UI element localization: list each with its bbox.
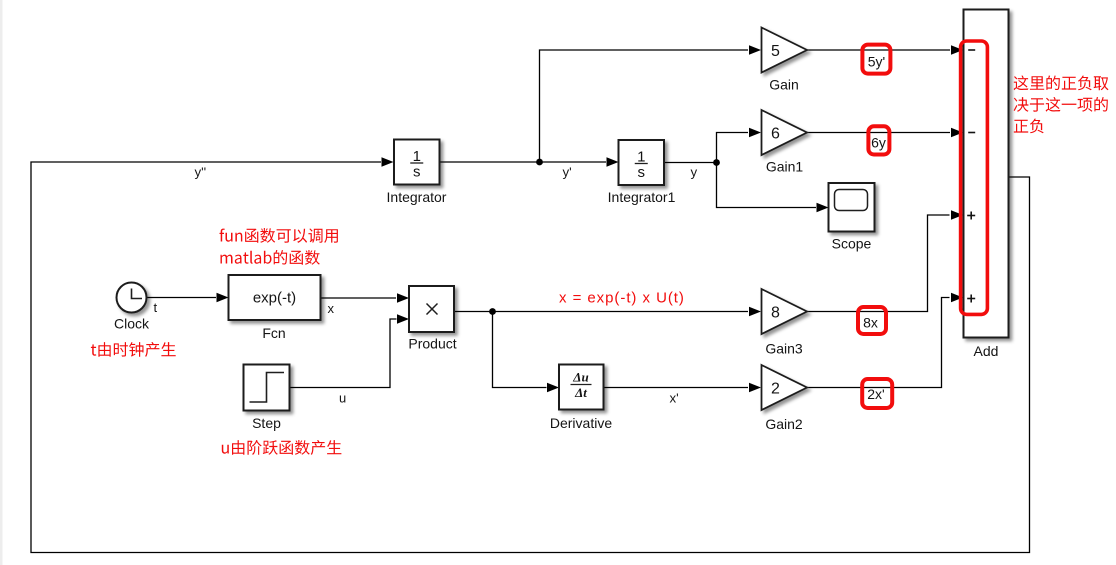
svg-text:6: 6 (771, 126, 780, 143)
label 8x (863, 315, 878, 331)
svg-text:5: 5 (771, 43, 780, 60)
annotation fun函数可以调用 (220, 228, 338, 243)
svg-text:u: u (339, 391, 346, 406)
gain Gain2 (2) (762, 365, 808, 410)
label Clock (114, 316, 150, 332)
svg-text:Step: Step (252, 415, 281, 431)
annotation 这里的正负取 line 1 (1014, 76, 1109, 91)
block Add (sum) (964, 10, 1009, 338)
wire Fcn to Product port 1 (x) (321, 293, 410, 303)
label Add (974, 343, 999, 359)
label Gain1 (766, 159, 804, 175)
wire Integrator to Integrator1 (y') (440, 157, 619, 167)
gain Gain (5) (762, 28, 808, 73)
svg-text:8: 8 (771, 305, 780, 322)
svg-text:y'': y'' (195, 165, 207, 180)
label Step (252, 415, 281, 431)
label x (328, 301, 335, 316)
pin sign minus (port 1) (968, 49, 975, 51)
wire Integrator1 to junction y (664, 162, 717, 164)
label 6y (871, 135, 886, 151)
gain Gain3 (8) (762, 289, 808, 334)
label y (691, 165, 698, 180)
annotation red box around Add signs (961, 41, 988, 314)
label Gain2 (765, 416, 803, 432)
block Derivative (559, 365, 604, 410)
label 5y' (868, 54, 885, 70)
pin sign minus (port 2) (968, 132, 975, 134)
wire y junction up to Gain1 (717, 128, 762, 163)
svg-text:x = exp(-t) x U(t): x = exp(-t) x U(t) (559, 290, 685, 307)
svg-text:x: x (328, 301, 335, 316)
block Scope (829, 183, 875, 232)
label Gain (769, 77, 799, 93)
svg-text:Gain3: Gain3 (765, 341, 803, 357)
svg-text:x': x' (670, 391, 679, 406)
wire x junction down to Derivative (493, 312, 560, 393)
wire feedback loop from Add output to y'' input (31, 157, 1030, 552)
annotation red box 6y (868, 126, 889, 154)
wire Clock to Fcn (t) (147, 293, 229, 303)
annotation x = exp(-t) x U(t) (559, 290, 685, 307)
node junction x (489, 308, 496, 315)
label Fcn (262, 325, 285, 341)
svg-text:5y': 5y' (868, 54, 885, 70)
gain Gain1 (6) (762, 110, 808, 155)
svg-text:y: y (691, 165, 698, 180)
annotation 正负 line 3 (1014, 119, 1044, 134)
wire Gain1 to Add port 2 (6y) (807, 128, 963, 138)
block Clock (117, 283, 147, 313)
annotation t由时钟产生 (91, 342, 176, 357)
label Gain3 (765, 341, 803, 357)
label Scope (832, 236, 872, 252)
svg-text:Gain1: Gain1 (766, 159, 804, 175)
svg-text:s: s (638, 164, 646, 181)
wire Gain to Add port 1 (5y') (807, 45, 963, 55)
wire Gain3 to Add port 3 (8x) (807, 210, 963, 311)
svg-text:Gain: Gain (769, 77, 799, 93)
wire Gain2 to Add port 4 (2x') (807, 293, 963, 388)
annotation red box 2x' (862, 379, 892, 408)
svg-text:Δu: Δu (572, 370, 588, 385)
label y'' (195, 165, 207, 180)
svg-text:t: t (154, 300, 158, 315)
wire Step to Product port 2 (u) (290, 314, 410, 387)
svg-text:Product: Product (408, 336, 456, 352)
label Integrator (387, 189, 447, 205)
svg-text:Clock: Clock (114, 316, 150, 332)
svg-text:s: s (413, 164, 421, 181)
pin sign plus (port 3) (967, 212, 975, 220)
label 2x' (867, 386, 884, 402)
annotation red box 5y' (862, 45, 890, 74)
label u (339, 391, 346, 406)
annotation matlab的函数 (221, 250, 320, 265)
annotation red box 8x (858, 307, 886, 334)
label t (154, 300, 158, 315)
pin sign plus (port 4) (967, 295, 975, 303)
wire y' junction up to Gain (540, 45, 762, 162)
block Integrator (1/s) (394, 140, 440, 185)
svg-text:Integrator1: Integrator1 (608, 189, 676, 205)
left window edge (0, 0, 3, 565)
annotation u由阶跃函数产生 (222, 440, 342, 455)
wire Product to Gain3 (x) (454, 307, 761, 317)
annotation 决于这一项的 line 2 (1014, 97, 1108, 112)
label Integrator1 (608, 189, 676, 205)
svg-text:Add: Add (974, 343, 999, 359)
svg-text:2: 2 (771, 381, 780, 398)
block Step (244, 365, 290, 411)
svg-text:y': y' (563, 165, 572, 180)
svg-text:2x': 2x' (867, 386, 884, 402)
block Fcn (229, 275, 321, 320)
svg-text:8x: 8x (863, 315, 878, 331)
label y' (563, 165, 572, 180)
svg-text:Derivative: Derivative (550, 415, 612, 431)
svg-text:Gain2: Gain2 (765, 416, 803, 432)
wire Derivative to Gain2 (x') (604, 383, 762, 393)
node junction y (713, 159, 720, 166)
svg-text:Scope: Scope (832, 236, 872, 252)
svg-text:6y: 6y (871, 135, 886, 151)
label Derivative (550, 415, 612, 431)
node junction y' (536, 159, 543, 166)
block Integrator1 (1/s) (619, 140, 665, 185)
svg-text:Integrator: Integrator (387, 189, 447, 205)
label x' (670, 391, 679, 406)
block Product (409, 286, 454, 332)
svg-text:Δt: Δt (574, 385, 587, 400)
wire y junction down to Scope (717, 163, 829, 213)
svg-text:exp(-t): exp(-t) (253, 290, 296, 307)
svg-text:Fcn: Fcn (262, 325, 285, 341)
label Product (408, 336, 456, 352)
